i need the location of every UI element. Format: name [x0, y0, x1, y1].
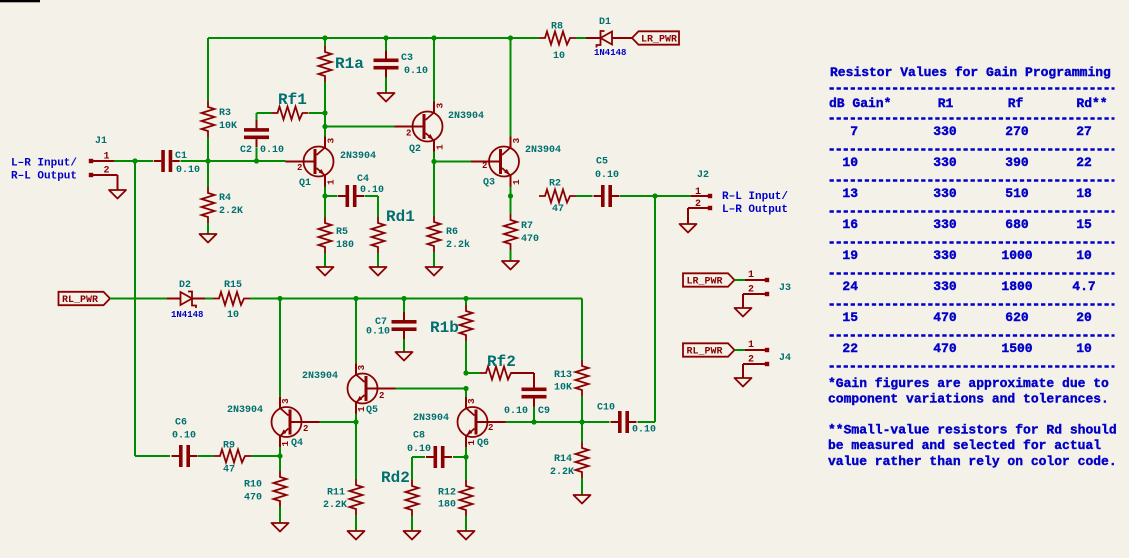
svg-text:J1: J1 — [95, 136, 107, 147]
svg-text:22: 22 — [842, 341, 858, 356]
svg-text:Rf2: Rf2 — [487, 353, 516, 371]
svg-text:C2: C2 — [240, 145, 252, 156]
svg-text:13: 13 — [842, 186, 858, 201]
svg-text:3: 3 — [356, 365, 367, 371]
svg-text:15: 15 — [1076, 217, 1092, 232]
svg-text:1: 1 — [104, 152, 110, 163]
svg-text:1N4148: 1N4148 — [171, 310, 203, 320]
svg-text:R14: R14 — [554, 454, 572, 465]
svg-text:D2: D2 — [179, 280, 191, 291]
svg-text:Rd**: Rd** — [1076, 96, 1107, 111]
svg-text:Q2: Q2 — [409, 144, 421, 155]
svg-text:R1: R1 — [938, 96, 954, 111]
svg-text:270: 270 — [1005, 124, 1029, 139]
svg-text:R12: R12 — [438, 488, 456, 499]
svg-text:J3: J3 — [779, 283, 791, 294]
svg-text:3: 3 — [280, 398, 291, 404]
svg-text:3: 3 — [466, 398, 477, 404]
svg-text:**Small-value resistors for Rd: **Small-value resistors for Rd should — [828, 423, 1117, 438]
svg-text:10: 10 — [1076, 341, 1092, 356]
svg-text:16: 16 — [842, 217, 858, 232]
svg-text:18: 18 — [1076, 186, 1092, 201]
svg-text:1: 1 — [435, 144, 446, 150]
svg-text:2N3904: 2N3904 — [227, 405, 263, 416]
svg-text:620: 620 — [1005, 310, 1029, 325]
svg-text:470: 470 — [933, 310, 957, 325]
svg-text:4.7: 4.7 — [1072, 279, 1095, 294]
svg-text:R4: R4 — [219, 193, 231, 204]
svg-text:RL_PWR: RL_PWR — [62, 295, 98, 306]
svg-text:330: 330 — [933, 248, 957, 263]
svg-text:2N3904: 2N3904 — [413, 413, 449, 424]
svg-text:D1: D1 — [599, 17, 611, 28]
svg-text:330: 330 — [933, 186, 957, 201]
svg-text:470: 470 — [521, 234, 539, 245]
svg-text:0.10: 0.10 — [176, 165, 200, 176]
svg-text:330: 330 — [933, 217, 957, 232]
svg-text:1500: 1500 — [1001, 341, 1032, 356]
svg-text:C3: C3 — [401, 53, 413, 64]
svg-text:15: 15 — [842, 310, 858, 325]
svg-text:2.2k: 2.2k — [446, 239, 470, 251]
svg-text:R8: R8 — [551, 22, 563, 33]
svg-text:R3: R3 — [219, 108, 231, 119]
svg-text:Q1: Q1 — [299, 178, 311, 189]
svg-text:R15: R15 — [224, 280, 242, 291]
svg-text:7: 7 — [850, 124, 858, 139]
svg-text:R11: R11 — [327, 488, 345, 499]
svg-text:R5: R5 — [336, 227, 348, 238]
svg-text:10: 10 — [1076, 248, 1092, 263]
svg-text:2: 2 — [406, 129, 411, 139]
svg-text:R6: R6 — [446, 227, 458, 238]
svg-text:dB Gain*: dB Gain* — [829, 96, 891, 111]
svg-text:R13: R13 — [554, 370, 572, 381]
svg-text:2.2K: 2.2K — [323, 500, 347, 511]
svg-text:1: 1 — [695, 187, 701, 198]
svg-text:Q3: Q3 — [483, 178, 495, 189]
svg-text:R–L Output: R–L Output — [11, 171, 77, 183]
svg-text:Resistor Values for Gain Progr: Resistor Values for Gain Programming — [830, 65, 1111, 80]
svg-text:RL_PWR: RL_PWR — [687, 347, 723, 358]
svg-text:1: 1 — [356, 406, 367, 412]
svg-text:1: 1 — [326, 179, 337, 185]
svg-text:Q6: Q6 — [477, 438, 489, 449]
svg-text:Q4: Q4 — [291, 438, 303, 449]
svg-text:LR_PWR: LR_PWR — [641, 35, 677, 46]
svg-text:2: 2 — [695, 199, 701, 210]
svg-text:2: 2 — [297, 163, 302, 173]
svg-text:2: 2 — [748, 285, 754, 296]
svg-text:2: 2 — [303, 424, 308, 434]
svg-text:2: 2 — [379, 391, 384, 401]
svg-text:Rd2: Rd2 — [381, 469, 410, 487]
svg-text:R10: R10 — [244, 480, 262, 491]
svg-text:Rd1: Rd1 — [386, 208, 415, 226]
svg-text:10K: 10K — [219, 121, 237, 132]
svg-text:330: 330 — [933, 155, 957, 170]
svg-text:10K: 10K — [554, 383, 572, 394]
svg-text:*Gain figures are approximate: *Gain figures are approximate due to — [828, 376, 1109, 391]
svg-text:LR_PWR: LR_PWR — [687, 277, 723, 288]
svg-text:0.10: 0.10 — [172, 431, 196, 442]
svg-text:2.2K: 2.2K — [550, 467, 574, 478]
svg-text:Rf: Rf — [1008, 96, 1024, 111]
svg-text:1: 1 — [748, 340, 754, 351]
svg-text:3: 3 — [326, 138, 337, 144]
svg-text:0.10: 0.10 — [632, 425, 656, 436]
svg-text:2: 2 — [104, 166, 110, 177]
svg-text:value rather than rely on colo: value rather than rely on color code. — [828, 454, 1117, 469]
svg-text:C6: C6 — [175, 418, 187, 429]
svg-text:470: 470 — [933, 341, 957, 356]
svg-text:R–L Input/: R–L Input/ — [722, 191, 788, 203]
svg-text:1N4148: 1N4148 — [594, 48, 626, 58]
svg-text:680: 680 — [1005, 217, 1029, 232]
svg-text:R9: R9 — [223, 441, 235, 452]
svg-text:R2: R2 — [549, 179, 561, 190]
svg-text:180: 180 — [336, 240, 354, 251]
svg-text:2N3904: 2N3904 — [340, 151, 376, 162]
svg-text:component variations and toler: component variations and tolerances. — [828, 392, 1109, 407]
svg-text:19: 19 — [842, 248, 858, 263]
svg-text:390: 390 — [1005, 155, 1029, 170]
svg-text:0.10: 0.10 — [260, 145, 284, 156]
svg-text:1: 1 — [280, 441, 291, 447]
svg-text:1800: 1800 — [1001, 279, 1032, 294]
svg-text:1: 1 — [466, 440, 477, 446]
svg-text:1: 1 — [511, 179, 522, 185]
svg-text:R7: R7 — [521, 221, 533, 232]
svg-text:22: 22 — [1076, 155, 1092, 170]
svg-text:2: 2 — [488, 423, 493, 433]
svg-text:27: 27 — [1076, 124, 1092, 139]
svg-text:L–R Input/: L–R Input/ — [11, 158, 77, 170]
svg-text:R1a: R1a — [335, 55, 364, 73]
svg-text:0.10: 0.10 — [360, 185, 384, 196]
svg-text:2: 2 — [748, 355, 754, 366]
svg-text:24: 24 — [842, 279, 858, 294]
svg-text:1000: 1000 — [1001, 248, 1032, 263]
svg-text:J2: J2 — [697, 170, 709, 181]
svg-text:0.10: 0.10 — [366, 327, 390, 338]
svg-text:0.10: 0.10 — [407, 444, 431, 455]
svg-text:C4: C4 — [357, 174, 369, 185]
svg-text:10: 10 — [227, 310, 239, 321]
svg-text:47: 47 — [552, 204, 564, 215]
svg-text:180: 180 — [438, 500, 456, 511]
svg-text:C10: C10 — [597, 403, 615, 414]
svg-text:1: 1 — [748, 270, 754, 281]
svg-text:20: 20 — [1076, 310, 1092, 325]
svg-text:Rf1: Rf1 — [278, 91, 307, 109]
svg-text:10: 10 — [553, 51, 565, 62]
svg-text:be measured and selected for a: be measured and selected for actual — [828, 438, 1101, 453]
svg-text:3: 3 — [511, 138, 522, 144]
svg-text:R1b: R1b — [430, 319, 459, 337]
svg-text:510: 510 — [1005, 186, 1029, 201]
svg-text:Q5: Q5 — [366, 405, 378, 416]
svg-text:2N3904: 2N3904 — [525, 145, 561, 156]
svg-text:330: 330 — [933, 124, 957, 139]
svg-text:3: 3 — [435, 103, 446, 109]
svg-text:0.10: 0.10 — [595, 170, 619, 181]
svg-text:2N3904: 2N3904 — [302, 371, 338, 382]
svg-text:2.2K: 2.2K — [219, 206, 243, 217]
svg-text:J4: J4 — [779, 353, 791, 364]
svg-text:C8: C8 — [413, 431, 425, 442]
svg-text:0.10: 0.10 — [504, 406, 528, 417]
svg-text:2: 2 — [482, 161, 487, 171]
svg-text:C9: C9 — [538, 406, 550, 417]
svg-text:0.10: 0.10 — [404, 66, 428, 77]
svg-text:C1: C1 — [175, 151, 187, 162]
svg-text:L–R Output: L–R Output — [722, 204, 788, 216]
svg-text:2N3904: 2N3904 — [448, 111, 484, 122]
svg-text:10: 10 — [842, 155, 858, 170]
svg-text:330: 330 — [933, 279, 957, 294]
svg-text:47: 47 — [223, 465, 235, 476]
svg-text:C5: C5 — [596, 157, 608, 168]
svg-text:470: 470 — [244, 493, 262, 504]
